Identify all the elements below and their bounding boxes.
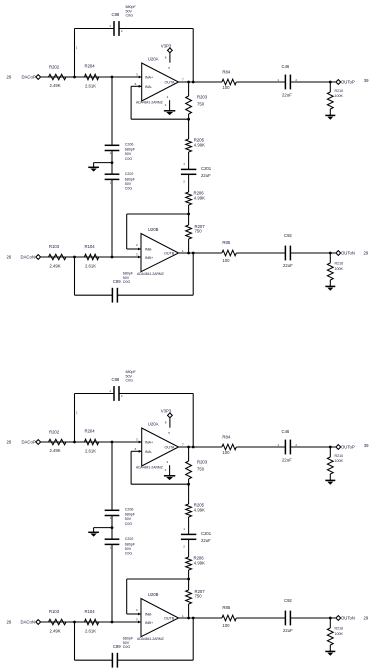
svg-text:100: 100 xyxy=(222,258,230,263)
svg-text:750: 750 xyxy=(197,102,205,107)
svg-text:C206: C206 xyxy=(125,143,134,147)
svg-text:C92: C92 xyxy=(284,233,292,238)
svg-text:R202: R202 xyxy=(49,65,60,70)
svg-text:22uF: 22uF xyxy=(283,263,293,268)
svg-text:R85: R85 xyxy=(222,240,230,245)
svg-text:100: 100 xyxy=(222,85,230,90)
svg-text:680pF: 680pF xyxy=(123,271,134,275)
svg-text:4.99K: 4.99K xyxy=(194,142,205,147)
svg-text:50V: 50V xyxy=(125,152,132,156)
svg-text:C0G: C0G xyxy=(126,14,134,18)
svg-text:39: 39 xyxy=(364,78,369,83)
svg-text:R210: R210 xyxy=(335,89,344,93)
svg-text:29: 29 xyxy=(364,251,369,256)
svg-text:INB-: INB- xyxy=(145,247,153,251)
svg-text:DACoN: DACoN xyxy=(21,254,35,259)
svg-text:4.99K: 4.99K xyxy=(194,195,205,200)
svg-text:R204: R204 xyxy=(85,64,96,69)
svg-text:R104: R104 xyxy=(85,244,96,249)
svg-text:2.49K: 2.49K xyxy=(50,83,61,88)
svg-text:OUToN: OUToN xyxy=(341,251,355,256)
svg-text:INA-: INA- xyxy=(145,85,153,89)
svg-text:C0G: C0G xyxy=(123,280,131,284)
svg-text:C46: C46 xyxy=(282,64,290,69)
svg-text:U20A: U20A xyxy=(148,57,159,62)
svg-text:OUTA: OUTA xyxy=(165,80,176,84)
svg-text:750: 750 xyxy=(195,229,203,234)
svg-text:680pF: 680pF xyxy=(125,148,136,152)
svg-text:2.49K: 2.49K xyxy=(50,263,61,268)
svg-text:22uF: 22uF xyxy=(201,173,211,178)
svg-text:C88: C88 xyxy=(112,12,120,17)
svg-text:C0G: C0G xyxy=(125,157,133,161)
svg-text:R203: R203 xyxy=(197,95,208,100)
svg-text:OUTB: OUTB xyxy=(164,252,175,256)
svg-text:V3P3: V3P3 xyxy=(161,43,172,48)
svg-text:INB+: INB+ xyxy=(145,256,153,260)
svg-text:2.61K: 2.61K xyxy=(85,83,96,88)
svg-text:680pF: 680pF xyxy=(125,177,136,181)
svg-text:R216: R216 xyxy=(335,261,344,265)
svg-text:22uF: 22uF xyxy=(282,93,292,98)
svg-text:R103: R103 xyxy=(49,244,60,249)
svg-text:C202: C202 xyxy=(125,172,134,176)
svg-text:DACoP: DACoP xyxy=(22,74,36,79)
svg-text:OUToP: OUToP xyxy=(341,79,355,84)
svg-text:26: 26 xyxy=(7,254,12,259)
svg-text:U20B: U20B xyxy=(148,227,159,232)
svg-text:ADA4841-2ARMZ: ADA4841-2ARMZ xyxy=(137,272,164,276)
svg-text:50V: 50V xyxy=(125,182,132,186)
svg-text:C0G: C0G xyxy=(125,187,133,191)
svg-text:C89: C89 xyxy=(113,279,121,284)
svg-text:26: 26 xyxy=(7,74,12,79)
svg-text:INA+: INA+ xyxy=(145,76,153,80)
svg-text:100K: 100K xyxy=(335,94,344,98)
svg-text:C201: C201 xyxy=(201,166,212,171)
svg-text:2.61K: 2.61K xyxy=(85,263,96,268)
svg-text:50V: 50V xyxy=(123,276,130,280)
svg-text:100K: 100K xyxy=(335,267,344,271)
svg-text:ADA4841-2ARMZ: ADA4841-2ARMZ xyxy=(136,100,163,104)
svg-text:R84: R84 xyxy=(222,70,230,75)
